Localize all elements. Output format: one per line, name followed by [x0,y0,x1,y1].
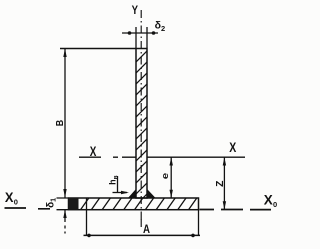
weld leg dimension hv: vertical stroke [117,176,119,193]
web outline [136,49,147,199]
dark ink blob at flange left end [69,198,79,210]
A dimension left extension line [86,198,88,236]
svg-text:0: 0 [273,200,277,209]
A dimension line [84,234,201,236]
flange hatching [80,197,198,211]
dimension line e [170,157,172,198]
svg-text:A: A [143,224,150,236]
flange thickness extension lines (left) [57,198,69,210]
dimension line B [64,49,66,198]
A dimension dots [87,234,91,238]
left X0 axis dashes [5,207,51,210]
svg-text:e: e [160,173,171,179]
weld leg dimension hv: horizontal stroke with arrow [113,192,128,194]
arrow B bottom [63,189,66,198]
X axis left dash-dot [79,156,136,158]
dimension dots delta2 [128,31,132,35]
svg-text:0: 0 [14,198,18,207]
arrow Z top [223,157,226,165]
svg-text:X: X [229,140,236,155]
svg-text:δ1: δ1 [45,198,57,208]
top extension line of B dimension [60,48,136,50]
arrow B top [63,49,66,58]
delta1 tail line [64,210,66,234]
svg-text:X: X [264,191,274,207]
flange outline [69,198,199,210]
svg-text:Y: Y [132,5,139,17]
Y axis centerline [140,10,142,222]
weld fillet left [129,190,137,199]
svg-text:Z: Z [214,180,226,187]
arrow e top [170,157,173,165]
arrow delta1 (pointing up to flange bottom) [63,210,66,218]
web hatching [134,49,149,207]
right X0 axis dashes [200,209,272,211]
arrow e bottom [170,190,173,198]
A dimension right extension line [198,210,200,236]
extension lines of web thickness dimension [136,27,147,48]
dimension line Z [223,157,225,209]
dimension line delta2 (web thickness) [122,32,158,34]
X axis solid right part [147,156,245,158]
svg-text:B: B [54,119,66,126]
weld fillet right [147,190,155,199]
svg-text:δ2: δ2 [155,20,166,33]
svg-text:X: X [5,190,14,205]
arrow Z bottom [223,201,226,209]
